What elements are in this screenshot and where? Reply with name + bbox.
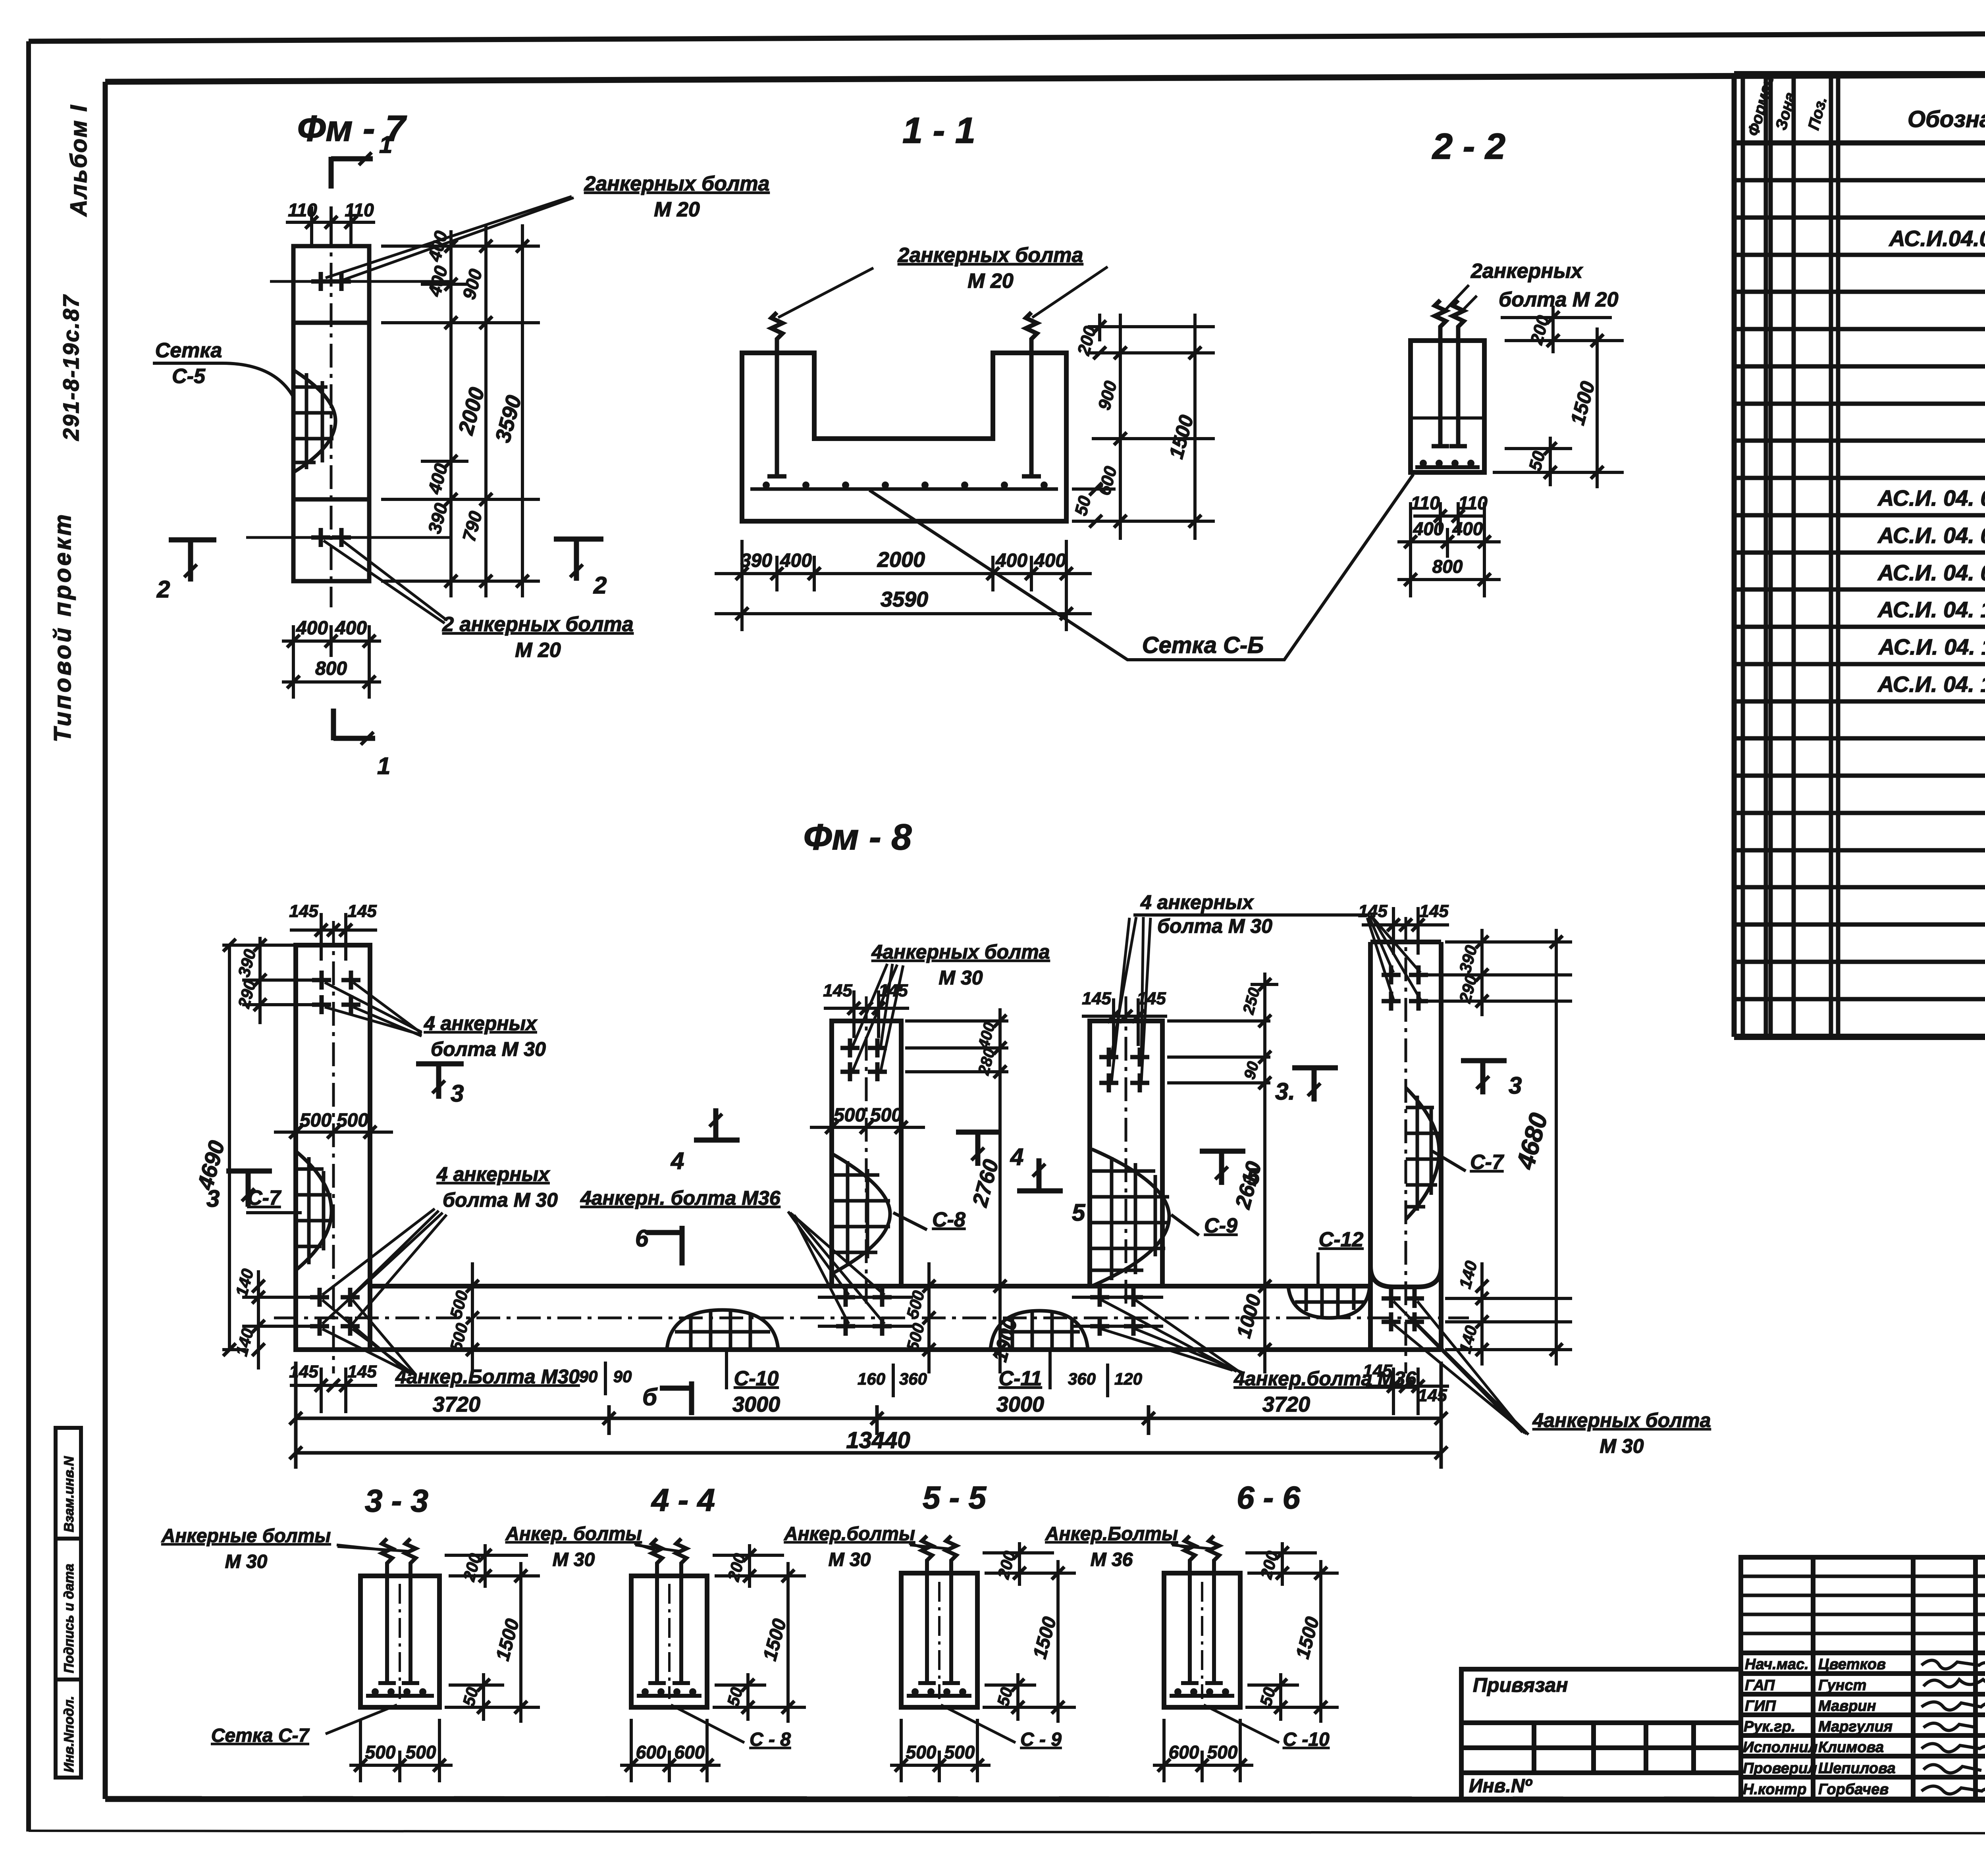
staff signatures squiggles xyxy=(1921,1660,1985,1794)
svg-text:3000: 3000 xyxy=(996,1393,1044,1416)
FM-7 mesh C-5 xyxy=(293,370,335,472)
svg-text:6 - 6: 6 - 6 xyxy=(1237,1480,1301,1515)
section 3-3 body xyxy=(360,1576,439,1707)
svg-text:Инв.Nподл.: Инв.Nподл. xyxy=(62,1696,77,1772)
svg-text:13440: 13440 xyxy=(846,1427,910,1453)
svg-text:4: 4 xyxy=(1010,1144,1023,1170)
svg-text:2000: 2000 xyxy=(877,548,925,572)
C5 bottom bolts leader label M30 xyxy=(1393,1301,1711,1457)
svg-text:3 - 3: 3 - 3 xyxy=(365,1483,428,1518)
specification table rows xyxy=(1877,151,1985,920)
svg-text:390: 390 xyxy=(740,550,772,571)
C-10 label xyxy=(727,1348,779,1390)
2-2 foundation profile xyxy=(1411,341,1484,472)
svg-text:Фм - 8: Фм - 8 xyxy=(804,817,912,857)
svg-text:4 анкерных: 4 анкерных xyxy=(424,1012,538,1034)
svg-text:Маргулия: Маргулия xyxy=(1818,1718,1892,1735)
label 4 bolts M36 bottom center xyxy=(1102,1300,1417,1390)
svg-text:Альбом I: Альбом I xyxy=(66,104,92,217)
svg-text:2 анкерных болта: 2 анкерных болта xyxy=(442,613,633,636)
svg-text:3590: 3590 xyxy=(881,587,928,611)
svg-text:400: 400 xyxy=(335,618,367,639)
svg-text:1: 1 xyxy=(379,131,392,158)
FM-7 section mark 2 right xyxy=(554,539,603,581)
2-2 right dims xyxy=(1493,306,1624,488)
C3 top 145 dims xyxy=(1082,989,1166,1008)
2-2 bottom mesh dots xyxy=(1415,460,1480,467)
C5 right 140 dims and 4680 xyxy=(1445,929,1572,1366)
section 6-6 body xyxy=(1164,1573,1240,1707)
svg-text:Сетка С-7: Сетка С-7 xyxy=(211,1725,310,1746)
C-7 label left xyxy=(246,1186,302,1213)
FM-7 section mark 1 bottom xyxy=(333,709,375,740)
FM-7 right dimension lines xyxy=(381,224,540,597)
setka C-5 shared label xyxy=(869,474,1413,660)
3-3 label bolts M30 xyxy=(161,1525,409,1572)
svg-text:145: 145 xyxy=(289,901,318,921)
svg-text:400: 400 xyxy=(296,618,328,639)
145 145 dims under C1 xyxy=(289,1362,377,1381)
svg-text:600: 600 xyxy=(1169,1742,1199,1762)
svg-text:500: 500 xyxy=(870,1105,902,1126)
4-4 right dims xyxy=(713,1544,806,1723)
145 145 dims under C5 xyxy=(1363,1361,1447,1405)
svg-text:АС.И.04.05.00 СБ: АС.И.04.05.00 СБ xyxy=(1888,226,1985,251)
5-5 label bolts M30 xyxy=(784,1524,950,1570)
1-1 bottom dims xyxy=(715,540,1092,631)
6-6 label C-10 xyxy=(1204,1705,1330,1750)
svg-text:Взам.инв.N: Взам.инв.N xyxy=(62,1456,77,1532)
svg-text:Рук.гр.: Рук.гр. xyxy=(1744,1718,1795,1735)
title block: left attachment box xyxy=(1461,1669,1741,1799)
svg-text:2анкерных болта: 2анкерных болта xyxy=(898,244,1083,267)
svg-text:400: 400 xyxy=(1034,550,1066,571)
svg-text:Горбачев: Горбачев xyxy=(1818,1781,1889,1798)
left margin rotated captions xyxy=(49,104,92,742)
svg-text:2: 2 xyxy=(156,576,170,603)
svg-text:С-11: С-11 xyxy=(999,1367,1042,1390)
FM-8 strip footing outline xyxy=(274,1286,1469,1350)
svg-text:600: 600 xyxy=(675,1742,705,1762)
svg-text:ГАП: ГАП xyxy=(1745,1677,1775,1694)
svg-text:Анкер.Болты: Анкер.Болты xyxy=(1045,1524,1178,1545)
5-5 label C-9 xyxy=(941,1705,1062,1750)
svg-text:145: 145 xyxy=(823,981,852,1000)
svg-text:145: 145 xyxy=(1363,1361,1392,1381)
svg-text:4анкер.Болта М30: 4анкер.Болта М30 xyxy=(395,1366,580,1388)
C2 mesh C-8 xyxy=(832,1154,890,1274)
FM-8 pedestal C3 xyxy=(1090,996,1162,1310)
section marks on FM-8 xyxy=(226,1061,1507,1415)
svg-text:Шепилова: Шепилова xyxy=(1818,1760,1896,1777)
svg-text:Сетка С-Б: Сетка С-Б xyxy=(1142,632,1264,658)
svg-text:400: 400 xyxy=(1452,518,1483,539)
6-6 label bolts M36 xyxy=(1045,1524,1212,1570)
svg-text:М 30: М 30 xyxy=(939,967,983,989)
specification table header xyxy=(1744,69,1985,138)
4-4 label C-8 xyxy=(671,1705,791,1750)
svg-text:3720: 3720 xyxy=(1262,1393,1310,1416)
C-7 label right xyxy=(1432,1151,1504,1174)
FM-7 leader 2 bolts M20 bottom xyxy=(324,541,634,662)
svg-text:Гунст: Гунст xyxy=(1818,1677,1866,1694)
svg-text:500: 500 xyxy=(406,1742,436,1762)
C-12 label xyxy=(1318,1228,1363,1286)
svg-text:3: 3 xyxy=(451,1080,464,1107)
svg-text:3: 3 xyxy=(1509,1072,1522,1099)
svg-text:1 - 1: 1 - 1 xyxy=(902,110,975,151)
dim vertical 500 500 left of C2 xyxy=(471,1262,474,1373)
svg-text:М 20: М 20 xyxy=(654,198,700,221)
C5 right dims 390 290 xyxy=(1425,929,1572,1016)
svg-text:800: 800 xyxy=(1432,556,1463,577)
svg-text:АС.И. 04. 08. 00 СБ: АС.И. 04. 08. 00 СБ xyxy=(1877,523,1985,548)
svg-text:110: 110 xyxy=(1411,493,1440,513)
FM-8 left 4680 dim xyxy=(222,945,294,1350)
svg-text:4 - 4: 4 - 4 xyxy=(651,1482,715,1518)
svg-text:4анкерных болта: 4анкерных болта xyxy=(1532,1409,1711,1431)
svg-text:С-5: С-5 xyxy=(172,365,206,388)
svg-text:160: 160 xyxy=(858,1369,885,1388)
svg-text:б: б xyxy=(642,1384,658,1410)
2-2 bottom dims xyxy=(1397,502,1501,597)
svg-text:Сетка: Сетка xyxy=(155,339,222,362)
svg-text:800: 800 xyxy=(315,658,347,679)
svg-text:болта М 30: болта М 30 xyxy=(431,1038,546,1060)
C2 top 145 dims xyxy=(823,981,908,1000)
svg-text:М 30: М 30 xyxy=(553,1549,595,1570)
4-4 bottom dims xyxy=(620,1719,721,1782)
svg-text:С - 9: С - 9 xyxy=(1020,1729,1062,1750)
FM-8 pedestal C5 tall right xyxy=(1370,917,1441,1373)
svg-text:4 анкерных: 4 анкерных xyxy=(436,1163,550,1185)
svg-text:500: 500 xyxy=(337,1110,368,1131)
C5 mesh C-7 xyxy=(1406,1088,1439,1219)
svg-text:АС.И. 04. 12. 00 СБ: АС.И. 04. 12. 00 СБ xyxy=(1877,672,1985,697)
svg-text:145: 145 xyxy=(1082,989,1111,1008)
C-9 label xyxy=(1171,1214,1237,1237)
svg-text:Анкер. болты: Анкер. болты xyxy=(505,1524,642,1545)
svg-text:500: 500 xyxy=(906,1742,937,1762)
svg-text:С-8: С-8 xyxy=(932,1208,966,1231)
FM-7 anchor bolts plan xyxy=(311,272,330,291)
C5 top 145 dims xyxy=(1358,901,1449,921)
svg-text:Анкер.болты: Анкер.болты xyxy=(784,1524,915,1545)
2-2 label 2 bolts M20 xyxy=(1442,260,1619,314)
svg-text:500: 500 xyxy=(300,1110,331,1131)
svg-text:М 30: М 30 xyxy=(1600,1435,1644,1457)
svg-text:500: 500 xyxy=(1207,1742,1238,1762)
svg-text:3.: 3. xyxy=(1275,1078,1295,1105)
svg-text:145: 145 xyxy=(347,1362,377,1381)
svg-text:120: 120 xyxy=(1114,1369,1142,1388)
svg-text:600: 600 xyxy=(636,1742,667,1762)
svg-text:М 30: М 30 xyxy=(225,1551,268,1572)
svg-text:ГИП: ГИП xyxy=(1745,1698,1776,1714)
svg-text:5: 5 xyxy=(1247,1163,1260,1190)
1-1 U-shaped foundation profile xyxy=(742,353,1066,521)
svg-text:болта М 30: болта М 30 xyxy=(1157,915,1272,937)
mesh C-11 on strip xyxy=(991,1311,1088,1349)
svg-text:3: 3 xyxy=(206,1185,220,1212)
C1 top bolts leader label M30 xyxy=(325,982,546,1060)
svg-text:Климова: Климова xyxy=(1818,1739,1884,1756)
C1 500 500 dim xyxy=(300,1110,368,1131)
section 5-5 body xyxy=(901,1573,977,1707)
svg-text:500: 500 xyxy=(944,1742,975,1762)
FM-7 label setka C-5 xyxy=(153,339,293,397)
1-1 right dims xyxy=(1072,314,1215,540)
svg-text:110: 110 xyxy=(345,200,374,220)
svg-text:500: 500 xyxy=(365,1742,396,1762)
C1 bottom bolts leader label M30 xyxy=(322,1163,558,1324)
1-1 anchor bolts xyxy=(767,312,1041,476)
svg-text:4 анкерных: 4 анкерных xyxy=(1140,891,1254,913)
svg-text:М 36: М 36 xyxy=(1091,1549,1133,1570)
svg-text:болта М 30: болта М 30 xyxy=(443,1189,558,1211)
svg-text:АС.И. 04. 09. 00 СБ: АС.И. 04. 09. 00 СБ xyxy=(1877,560,1985,585)
6-6 bottom dims xyxy=(1153,1719,1253,1782)
FM-7 110 110 dims xyxy=(288,200,374,220)
left attribute strip boxes xyxy=(56,1428,81,1778)
svg-text:145: 145 xyxy=(289,1362,318,1381)
1-1 label 2 bolts M20 xyxy=(778,244,1108,318)
title block: staff grid xyxy=(1741,1557,1985,1799)
svg-text:Анкерные болты: Анкерные болты xyxy=(161,1525,331,1547)
svg-text:400: 400 xyxy=(780,550,812,571)
svg-text:Инв.Nº: Инв.Nº xyxy=(1469,1776,1533,1797)
svg-text:Н.контр: Н.контр xyxy=(1743,1781,1806,1798)
svg-text:145: 145 xyxy=(1358,901,1388,921)
FM-8 pedestal C2 xyxy=(832,996,901,1310)
svg-text:4анкерн. болта М36: 4анкерн. болта М36 xyxy=(580,1187,781,1209)
2-2 anchor bolts xyxy=(1432,300,1467,446)
FM-7 bottom dims xyxy=(282,625,381,699)
svg-text:5 - 5: 5 - 5 xyxy=(923,1480,987,1515)
C-12 mesh under C5 base xyxy=(1288,1287,1370,1318)
specification table grid xyxy=(1734,74,1985,1037)
svg-text:С-9: С-9 xyxy=(1204,1214,1237,1237)
svg-text:3000: 3000 xyxy=(732,1393,780,1416)
svg-text:М 20: М 20 xyxy=(515,639,561,662)
dim vertical 500 500 right of C2 xyxy=(927,1262,931,1373)
FM-7 leader 2 bolts M20 top xyxy=(326,172,769,280)
160 360 dims bottom xyxy=(858,1369,927,1388)
C3 right small dims xyxy=(1167,973,1278,1373)
C3 and C5 top bolts shared leader label M30 xyxy=(1112,891,1420,1081)
C1 left 140 140 dims xyxy=(242,1270,314,1369)
C2 500 500 dim xyxy=(834,1105,902,1126)
strip bolt group under C3 xyxy=(1090,1288,1109,1307)
svg-text:1: 1 xyxy=(377,753,390,779)
svg-text:3720: 3720 xyxy=(433,1393,480,1416)
svg-text:Подпись и дата: Подпись и дата xyxy=(62,1564,77,1673)
C2 right small dims xyxy=(905,1008,1008,1373)
90 90 dims bottom xyxy=(579,1367,632,1386)
C3 mesh C-9 xyxy=(1092,1149,1169,1286)
C2 top bolts leader label M30 xyxy=(853,941,1050,1072)
svg-text:болта М 20: болта М 20 xyxy=(1499,288,1619,311)
2-2 leader to setka label xyxy=(1284,472,1412,660)
svg-text:5: 5 xyxy=(1072,1199,1086,1226)
C1 mesh C-7 xyxy=(296,1151,331,1270)
svg-text:Проверил: Проверил xyxy=(1743,1760,1817,1777)
6-6 right dims xyxy=(1245,1542,1339,1723)
svg-text:90: 90 xyxy=(613,1367,632,1386)
FM-8 bottom span dims xyxy=(296,1362,1441,1469)
FM-7 section mark 1 top xyxy=(331,157,373,189)
3-3 bottom dims xyxy=(349,1719,453,1782)
svg-text:АС.И. 04. 07. 00 СБ: АС.И. 04. 07. 00 СБ xyxy=(1877,485,1985,510)
svg-text:4: 4 xyxy=(671,1148,684,1174)
3-3 right dims xyxy=(445,1544,540,1723)
svg-text:АС.И. 04. 10. 00 СБ: АС.И. 04. 10. 00 СБ xyxy=(1877,597,1985,622)
svg-text:2анкерных болта: 2анкерных болта xyxy=(584,172,770,195)
svg-text:2 - 2: 2 - 2 xyxy=(1432,126,1505,167)
svg-text:6: 6 xyxy=(635,1225,649,1252)
section 4-4 body xyxy=(631,1576,707,1707)
C-8 label xyxy=(893,1208,966,1231)
svg-text:С-12: С-12 xyxy=(1319,1228,1364,1251)
svg-text:Привязан: Привязан xyxy=(1473,1674,1568,1696)
svg-text:4анкерных болта: 4анкерных болта xyxy=(871,941,1050,963)
svg-text:С-10: С-10 xyxy=(734,1367,779,1390)
mesh C-10 on strip xyxy=(667,1310,778,1349)
svg-text:291-8-19с.87: 291-8-19с.87 xyxy=(58,294,83,441)
C-11 label xyxy=(999,1348,1050,1390)
svg-text:2анкерных: 2анкерных xyxy=(1470,260,1583,283)
svg-text:С - 8: С - 8 xyxy=(750,1729,791,1750)
svg-text:АС.И. 04. 11. 00 СБ: АС.И. 04. 11. 00 СБ xyxy=(1878,634,1985,659)
C1 top 145 dims xyxy=(289,901,377,921)
C1 left dims 390 290 xyxy=(242,937,318,1024)
strip bolt group under C2 xyxy=(836,1288,855,1307)
svg-text:360: 360 xyxy=(899,1369,927,1388)
FM-7 section mark 2 left xyxy=(169,540,216,582)
FM-8 pedestal C1 xyxy=(296,921,370,1373)
svg-text:Маврин: Маврин xyxy=(1818,1698,1876,1714)
svg-text:360: 360 xyxy=(1068,1369,1096,1388)
5-5 right dims xyxy=(983,1542,1076,1723)
svg-text:М 30: М 30 xyxy=(829,1549,871,1570)
svg-text:Исполнил: Исполнил xyxy=(1743,1739,1817,1756)
svg-text:110: 110 xyxy=(1458,493,1488,513)
svg-text:М 20: М 20 xyxy=(967,270,1014,293)
svg-text:Нач.мас.: Нач.мас. xyxy=(1745,1656,1809,1673)
4-4 label bolts M30 xyxy=(505,1524,680,1570)
svg-text:145: 145 xyxy=(347,901,377,921)
svg-text:Типовой проект: Типовой проект xyxy=(49,512,76,742)
360 120 dims bottom xyxy=(1068,1369,1142,1388)
svg-text:400: 400 xyxy=(995,550,1027,571)
5-5 bottom dims xyxy=(890,1719,991,1782)
FM-7 plan outline xyxy=(246,222,453,607)
svg-text:С -10: С -10 xyxy=(1283,1729,1330,1750)
svg-text:Цветков: Цветков xyxy=(1818,1656,1886,1673)
1-1 bottom mesh xyxy=(750,487,1058,491)
svg-text:400: 400 xyxy=(1413,518,1444,539)
svg-text:С-7: С-7 xyxy=(1470,1151,1504,1174)
label 4 bolts M36 mid left xyxy=(580,1187,885,1324)
3-3 label setka C-7 xyxy=(211,1705,397,1746)
svg-text:90: 90 xyxy=(579,1367,598,1386)
svg-text:Обозначение: Обозначение xyxy=(1908,106,1985,132)
svg-text:2: 2 xyxy=(593,572,607,599)
label 4 bolts M30 bottom left xyxy=(322,1300,580,1388)
